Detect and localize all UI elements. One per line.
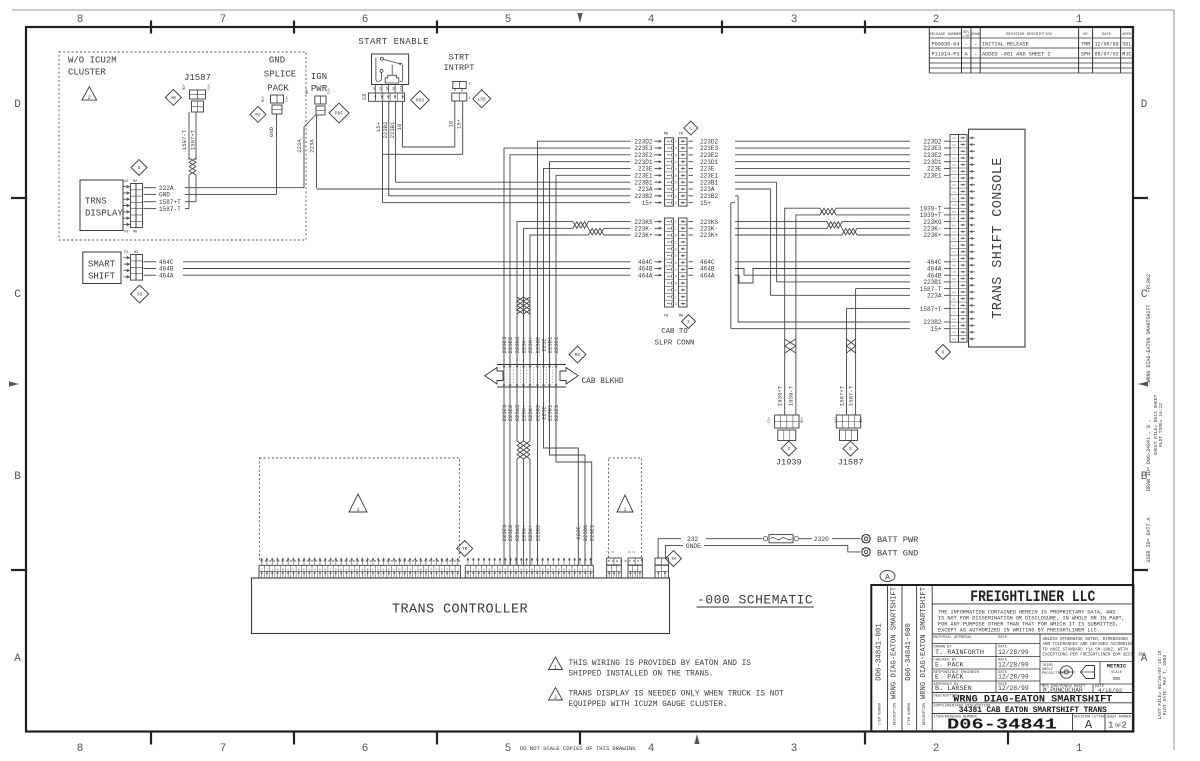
svg-text:5: 5: [505, 14, 512, 26]
svg-text:L: L: [675, 295, 677, 299]
svg-text:F6: F6: [953, 331, 957, 334]
svg-text:F: F: [675, 220, 677, 224]
svg-text:223A: 223A: [309, 139, 316, 153]
svg-text:E: E: [590, 568, 592, 571]
svg-text:1: 1: [1076, 14, 1083, 26]
svg-text:E. PACK: E. PACK: [935, 662, 964, 670]
svg-text:D: D: [675, 234, 677, 238]
svg-text:ITEM NUMBER: ITEM NUMBER: [879, 703, 883, 725]
svg-text:M8: M8: [953, 291, 957, 294]
svg-text:REVISION DESCRIPTION: REVISION DESCRIPTION: [1006, 33, 1052, 37]
svg-text:-: -: [974, 42, 977, 48]
svg-text:A: A: [885, 574, 890, 582]
svg-text:K: K: [675, 247, 677, 251]
svg-text:3: 3: [787, 447, 790, 452]
svg-text:A: A: [319, 568, 321, 571]
svg-text:222A: 222A: [296, 139, 303, 153]
svg-text:1587-T: 1587-T: [159, 206, 181, 213]
svg-text:SLPR CONN: SLPR CONN: [655, 340, 695, 348]
svg-text:B2: B2: [953, 144, 957, 147]
svg-text:GND: GND: [268, 126, 275, 137]
svg-text:8: 8: [77, 14, 84, 26]
svg-text:A: A: [361, 568, 363, 571]
svg-text:16: 16: [396, 124, 403, 131]
svg-text:M8: M8: [133, 231, 137, 235]
svg-text:G: G: [558, 568, 560, 571]
svg-text:D: D: [293, 568, 295, 571]
svg-text:P: P: [430, 568, 432, 571]
svg-text:M1+: M1+: [262, 96, 266, 102]
svg-text:B: B: [367, 568, 369, 571]
svg-text:D: D: [584, 568, 586, 571]
svg-text:DATE: DATE: [1102, 33, 1112, 37]
svg-text:M: M: [675, 174, 677, 178]
svg-text:D06-34841-000: D06-34841-000: [905, 623, 913, 681]
svg-text:SOL: SOL: [1122, 42, 1131, 48]
svg-text:L: L: [675, 227, 677, 231]
svg-text:223E2: 223E2: [507, 525, 514, 542]
svg-text:DESCRIPTION: DESCRIPTION: [923, 703, 927, 725]
svg-text:USER ID= DAT7.A: USER ID= DAT7.A: [1146, 517, 1152, 562]
svg-text:SPLICE: SPLICE: [264, 70, 296, 80]
svg-text:WRNG DIAG-EATON SMARTSHIFT: WRNG DIAG-EATON SMARTSHIFT: [890, 586, 898, 699]
svg-text:J: J: [271, 568, 273, 571]
svg-text:12/28/99: 12/28/99: [998, 649, 1029, 656]
svg-text:D: D: [1141, 99, 1148, 111]
svg-text:223B2: 223B2: [382, 122, 389, 139]
svg-text:P11914-F3: P11914-F3: [932, 52, 960, 58]
svg-text:GND: GND: [159, 192, 170, 199]
svg-text:LTR: LTR: [963, 35, 969, 39]
svg-text:FPL862: FPL862: [1146, 274, 1152, 292]
svg-text:J: J: [478, 568, 480, 571]
svg-text:IGN: IGN: [311, 72, 327, 82]
svg-text:INTRPT: INTRPT: [444, 63, 475, 73]
svg-text:A5: A5: [953, 218, 957, 221]
svg-text:2: 2: [612, 551, 616, 553]
svg-text:C: C: [536, 568, 538, 571]
svg-text:SHEET NUMBER: SHEET NUMBER: [1107, 715, 1131, 719]
svg-text:223E2: 223E2: [507, 337, 514, 354]
svg-text:P09930-04: P09930-04: [932, 42, 960, 48]
svg-text:1587-T: 1587-T: [847, 385, 854, 406]
svg-text:TRANS CONTROLLER: TRANS CONTROLLER: [392, 603, 528, 618]
svg-text:15+: 15+: [931, 326, 942, 333]
svg-text:AB: AB: [171, 96, 177, 101]
svg-text:SMART: SMART: [88, 260, 116, 270]
svg-text:1: 1: [689, 127, 692, 132]
svg-text:3: 3: [791, 743, 798, 755]
svg-text:D06-34841: D06-34841: [947, 717, 1057, 734]
svg-text:J: J: [467, 568, 469, 571]
svg-text:PACK: PACK: [267, 84, 289, 94]
svg-text:1939-T: 1939-T: [788, 385, 795, 406]
svg-text:START ENABLE: START ENABLE: [358, 37, 429, 47]
svg-text:1587+T: 1587+T: [920, 306, 942, 313]
svg-text:E. PACK: E. PACK: [935, 674, 964, 682]
svg-text:-000 SCHEMATIC: -000 SCHEMATIC: [697, 593, 813, 608]
svg-text:F2+: F2+: [328, 88, 332, 94]
svg-text:1939+T: 1939+T: [920, 212, 942, 219]
svg-text:BATT PWR: BATT PWR: [877, 535, 918, 545]
svg-text:TH: TH: [671, 557, 677, 562]
svg-text:SPH: SPH: [1081, 52, 1090, 58]
svg-text:223B1: 223B1: [389, 121, 396, 138]
svg-text:DRAW ID= D06-34841 , 8 ,: DRAW ID= D06-34841 , 8 ,: [1146, 419, 1152, 491]
svg-text:D: D: [542, 568, 544, 571]
svg-text:TO ANSI STANDARD Y14.5M-1982,: TO ANSI STANDARD Y14.5M-1982, WITH: [1043, 648, 1129, 652]
svg-text:D: D: [675, 302, 677, 306]
svg-text:PWR: PWR: [311, 84, 328, 94]
svg-text:mm: mm: [1113, 676, 1119, 682]
svg-text:EXCEPTIONS PER FREIGHTLINER ED: EXCEPTIONS PER FREIGHTLINER EDM SECT. 30…: [1043, 654, 1149, 658]
svg-text:M2+: M2+: [801, 417, 805, 423]
svg-text:OF: OF: [1115, 723, 1121, 729]
svg-text:G7: G7: [953, 177, 957, 180]
svg-text:2: 2: [1122, 721, 1127, 731]
svg-text:THIS WIRING IS PROVIDED BY EAT: THIS WIRING IS PROVIDED BY EATON AND IS: [569, 660, 752, 668]
svg-text:WRNG DIAG-EATON SMARTSHIFT: WRNG DIAG-EATON SMARTSHIFT: [920, 586, 928, 699]
svg-text:464A: 464A: [700, 272, 715, 279]
svg-text:7: 7: [220, 14, 227, 26]
svg-text:C7: C7: [953, 231, 957, 234]
svg-text:F6: F6: [953, 171, 957, 174]
svg-text:C: C: [14, 289, 21, 301]
svg-text:223K+: 223K+: [700, 232, 719, 239]
svg-text:15+: 15+: [642, 200, 653, 207]
svg-text:L7: L7: [953, 285, 957, 288]
svg-text:223E1: 223E1: [553, 336, 560, 353]
svg-text:A1: A1: [953, 137, 957, 140]
svg-text:GND: GND: [269, 56, 285, 66]
svg-text:DO NOT SCALE COPIES OF THIS DR: DO NOT SCALE COPIES OF THIS DRAWING: [520, 745, 636, 752]
svg-text:5: 5: [505, 743, 512, 755]
svg-text:H: H: [675, 153, 677, 157]
svg-text:N: N: [425, 568, 427, 571]
svg-text:P63: P63: [416, 98, 425, 104]
svg-text:J: J: [472, 568, 474, 571]
svg-text:CAB TO: CAB TO: [661, 328, 688, 336]
svg-text:TR: TR: [462, 547, 468, 552]
svg-text:ADDED -001 AND SHEET 2: ADDED -001 AND SHEET 2: [982, 52, 1051, 58]
svg-text:F: F: [552, 568, 554, 571]
svg-text:C: C: [675, 140, 677, 144]
svg-text:EQUIPPED WITH ICU2M GAUGE CLUS: EQUIPPED WITH ICU2M GAUGE CLUSTER.: [569, 701, 728, 709]
svg-text:E5: E5: [953, 325, 957, 328]
svg-text:F2+: F2+: [768, 417, 772, 423]
svg-text:MJC: MJC: [1122, 52, 1131, 58]
svg-text:B: B: [531, 568, 533, 571]
svg-text:M2+: M2+: [183, 84, 187, 90]
svg-text:METRIC: METRIC: [1107, 664, 1127, 670]
svg-text:J1: J1: [953, 191, 957, 194]
svg-text:D: D: [675, 201, 677, 205]
svg-text:B: B: [488, 568, 490, 571]
svg-text:TMR: TMR: [1081, 42, 1090, 48]
svg-text:J: J: [404, 568, 406, 571]
svg-text:12/28/99: 12/28/99: [998, 662, 1029, 669]
svg-text:BY: BY: [1083, 33, 1088, 37]
svg-text:8: 8: [77, 743, 84, 755]
svg-text:E: E: [675, 194, 677, 198]
svg-text:DATE: DATE: [998, 636, 1008, 640]
svg-text:6: 6: [362, 743, 369, 755]
svg-text:T: T: [446, 568, 448, 571]
svg-text:12/28/99: 12/28/99: [998, 685, 1029, 692]
svg-text:15+: 15+: [375, 121, 382, 132]
svg-text:223E1: 223E1: [589, 524, 596, 541]
svg-text:MATERIAL APPROVAL: MATERIAL APPROVAL: [934, 636, 973, 640]
svg-text:SS: SS: [137, 293, 143, 298]
svg-text:D: D: [377, 568, 379, 571]
svg-text:H8: H8: [953, 184, 957, 187]
svg-text:A: A: [277, 568, 279, 571]
svg-text:G: G: [515, 568, 517, 571]
svg-text:H: H: [399, 568, 401, 571]
svg-text:M2: M2: [133, 180, 137, 184]
svg-text:J1939: J1939: [776, 458, 802, 468]
svg-text:C: C: [372, 568, 374, 571]
svg-text:A: A: [14, 653, 21, 665]
svg-text:G: G: [393, 568, 395, 571]
svg-text:RELEASE NUMBER: RELEASE NUMBER: [929, 33, 962, 37]
svg-text:2: 2: [687, 320, 690, 325]
svg-text:M2+: M2+: [306, 88, 310, 94]
svg-text:H: H: [675, 275, 677, 279]
svg-text:464A: 464A: [638, 272, 653, 279]
svg-text:E5: E5: [953, 164, 957, 167]
svg-text:2: 2: [607, 551, 611, 553]
svg-text:2320: 2320: [814, 536, 829, 543]
svg-text:223D2: 223D2: [534, 525, 541, 542]
svg-text:1587+T: 1587+T: [838, 385, 845, 406]
svg-text:TRNS: TRNS: [85, 197, 107, 207]
svg-text:B: B: [324, 568, 326, 571]
svg-text:SHIPPED INSTALLED ON THE TRANS: SHIPPED INSTALLED ON THE TRANS.: [569, 671, 714, 679]
svg-text:2: 2: [88, 95, 91, 101]
svg-text:B: B: [574, 568, 576, 571]
svg-text:B: B: [14, 471, 21, 483]
svg-text:B6: B6: [953, 224, 957, 227]
svg-text:INITIAL RELEASE: INITIAL RELEASE: [982, 42, 1029, 48]
svg-text:UNLESS OTHERWISE NOTED, DIMENS: UNLESS OTHERWISE NOTED, DIMENSIONS: [1043, 638, 1129, 642]
svg-text:D: D: [14, 99, 21, 111]
svg-text:C: C: [330, 568, 332, 571]
svg-text:E: E: [340, 568, 342, 571]
svg-text:F: F: [388, 568, 390, 571]
svg-text:A: A: [1085, 718, 1093, 732]
svg-text:C3: C3: [953, 311, 957, 314]
svg-text:ZONE: ZONE: [971, 33, 981, 37]
svg-text:223E1: 223E1: [923, 173, 942, 180]
svg-text:4: 4: [648, 14, 655, 26]
svg-text:B2: B2: [953, 305, 957, 308]
svg-text:223K+: 223K+: [527, 336, 534, 353]
svg-text:2: 2: [933, 14, 940, 26]
svg-text:E: E: [547, 568, 549, 571]
svg-text:M4: M4: [953, 211, 957, 214]
svg-text:G7: G7: [953, 338, 957, 341]
svg-text:A2: A2: [124, 180, 128, 184]
svg-text:M3: M3: [134, 251, 138, 255]
svg-text:R: R: [436, 568, 438, 571]
svg-text:F8: F8: [124, 231, 128, 235]
svg-text:B: B: [675, 181, 677, 185]
svg-text:30: 30: [372, 87, 376, 91]
svg-text:M: M: [675, 282, 677, 286]
svg-text:A: A: [483, 568, 485, 571]
svg-text:223K+: 223K+: [634, 232, 653, 239]
svg-text:APPD: APPD: [1122, 33, 1132, 37]
svg-text:P2: P2: [255, 113, 261, 118]
svg-text:C: C: [675, 240, 677, 244]
svg-text:12/08/99: 12/08/99: [1095, 42, 1119, 48]
svg-text:F: F: [675, 288, 677, 292]
svg-text:D4: D4: [953, 157, 957, 160]
svg-text:SHIFT: SHIFT: [88, 272, 116, 282]
svg-text:1: 1: [469, 97, 471, 101]
svg-text:1939+T: 1939+T: [777, 385, 784, 406]
svg-text:B: B: [675, 261, 677, 265]
svg-text:6: 6: [942, 351, 945, 356]
svg-text:15+: 15+: [700, 200, 711, 207]
svg-text:1: 1: [356, 507, 359, 513]
svg-text:E: E: [504, 568, 506, 571]
svg-text:PDF: PDF: [335, 111, 344, 117]
svg-text:TRANS DISPLAY IS NEEDED ONLY W: TRANS DISPLAY IS NEEDED ONLY WHEN TRUCK …: [569, 691, 785, 699]
svg-text:SCALE: SCALE: [1111, 671, 1122, 675]
svg-text:2: 2: [628, 551, 632, 553]
svg-text:2: 2: [933, 743, 940, 755]
svg-text:M: M: [420, 568, 422, 571]
svg-text:B: B: [282, 568, 284, 571]
svg-text:1: 1: [623, 507, 626, 513]
svg-text:F2+: F2+: [835, 417, 839, 423]
svg-text:E1: E1: [953, 244, 957, 247]
svg-text:2: 2: [554, 695, 557, 701]
svg-text:E: E: [298, 568, 300, 571]
svg-text:CLUSTER: CLUSTER: [68, 68, 106, 78]
svg-text:223K+: 223K+: [923, 232, 942, 239]
svg-text:J1587: J1587: [184, 73, 211, 83]
svg-text:1: 1: [1076, 743, 1083, 755]
svg-text:85: 85: [392, 87, 396, 91]
svg-text:K: K: [409, 568, 411, 571]
svg-text:ITEM NUMBER: ITEM NUMBER: [908, 703, 912, 725]
svg-text:1: 1: [554, 664, 557, 670]
svg-text:PLOT DATE: MAY 7, 2002: PLOT DATE: MAY 7, 2002: [1162, 654, 1168, 715]
svg-text:1: 1: [1108, 721, 1113, 731]
svg-text:C: C: [287, 568, 289, 571]
svg-text:B. LARSEN: B. LARSEN: [935, 685, 972, 693]
svg-text:D8: D8: [953, 238, 957, 241]
svg-text:A: A: [526, 568, 528, 571]
svg-text:1587+T: 1587+T: [190, 129, 197, 150]
svg-text:BC: BC: [575, 353, 581, 358]
svg-text:D: D: [335, 568, 337, 571]
svg-text:W/O ICU2M: W/O ICU2M: [68, 56, 117, 66]
svg-text:F1+: F1+: [286, 96, 290, 102]
svg-text:E: E: [675, 254, 677, 258]
svg-text:F: F: [346, 568, 348, 571]
svg-text:L: L: [414, 568, 416, 571]
svg-text:X: X: [675, 147, 677, 151]
svg-text:4: 4: [648, 743, 655, 755]
svg-text:H: H: [314, 568, 316, 571]
svg-text:AND TOLERANCES ARE DEFINED ACC: AND TOLERANCES ARE DEFINED ACCORDING: [1043, 643, 1134, 647]
svg-text:F3: F3: [124, 251, 128, 255]
svg-text:G: G: [675, 188, 677, 192]
svg-text:223K+: 223K+: [527, 524, 534, 541]
svg-text:H: H: [520, 568, 522, 571]
svg-text:F: F: [303, 568, 305, 571]
svg-text:K: K: [675, 160, 677, 164]
svg-text:STRT: STRT: [449, 53, 470, 63]
svg-text:G: G: [308, 568, 310, 571]
svg-text:FREIGHTLINER LLC: FREIGHTLINER LLC: [970, 588, 1095, 606]
svg-text:U: U: [452, 568, 454, 571]
svg-text:DESCRIPTION: DESCRIPTION: [893, 703, 897, 725]
svg-text:H: H: [356, 568, 358, 571]
svg-text:TRANS SHIFT CONSOLE: TRANS SHIFT CONSOLE: [991, 157, 1006, 319]
svg-text:.WRNG DIAG-EATON SMARTSHIFT: .WRNG DIAG-EATON SMARTSHIFT: [1146, 304, 1152, 385]
svg-text:C3: C3: [953, 151, 957, 154]
svg-text:86: 86: [385, 87, 389, 91]
svg-text:DISPLAY: DISPLAY: [85, 209, 123, 219]
svg-text:J: J: [261, 568, 263, 571]
svg-text:PLOT TIME= 16:12: PLOT TIME= 16:12: [1158, 403, 1164, 447]
svg-text:6: 6: [362, 14, 369, 26]
svg-text:2: 2: [469, 83, 471, 87]
svg-text:7: 7: [220, 743, 227, 755]
svg-text:EXCEPT AS AUTHORIZED IN WRITIN: EXCEPT AS AUTHORIZED IN WRITING BY FREIG…: [938, 628, 1100, 634]
svg-text:CAB BLKHD: CAB BLKHD: [582, 378, 624, 386]
svg-text:S: S: [138, 165, 141, 171]
svg-text:-: -: [974, 52, 977, 58]
svg-text:2: 2: [633, 551, 637, 553]
svg-text:J1587: J1587: [838, 458, 864, 468]
svg-text:A1: A1: [953, 298, 957, 301]
svg-text:A: A: [675, 268, 677, 272]
svg-text:H4: H4: [953, 264, 957, 267]
svg-text:87: 87: [379, 87, 383, 91]
svg-text:D06-34841-001: D06-34841-001: [876, 623, 884, 681]
svg-text:87A: 87A: [400, 86, 404, 92]
svg-text:16: 16: [448, 121, 455, 128]
svg-text:L3: L3: [953, 204, 957, 207]
svg-text:GNDE: GNDE: [686, 543, 701, 550]
svg-text:S: S: [441, 568, 443, 571]
svg-text:223A: 223A: [927, 293, 942, 300]
svg-text:15+: 15+: [456, 118, 463, 129]
svg-text:G3: G3: [953, 258, 957, 261]
svg-text:WRNG DIAG-EATON SMARTSHIFT: WRNG DIAG-EATON SMARTSHIFT: [953, 693, 1112, 705]
svg-text:C: C: [579, 568, 581, 571]
svg-text:C: C: [494, 568, 496, 571]
svg-text:A: A: [568, 568, 570, 571]
svg-text:F: F: [510, 568, 512, 571]
svg-text:BATT GND: BATT GND: [877, 548, 918, 558]
svg-text:5: 5: [849, 447, 852, 452]
svg-text:H: H: [563, 568, 565, 571]
svg-text:-: -: [965, 42, 968, 48]
svg-text:D: D: [499, 568, 501, 571]
svg-text:08/07/02: 08/07/02: [1095, 52, 1119, 58]
svg-text:J: J: [266, 568, 268, 571]
svg-text:J5: J5: [953, 271, 957, 274]
svg-text:D4: D4: [953, 318, 957, 321]
svg-text:LS6: LS6: [478, 97, 486, 102]
